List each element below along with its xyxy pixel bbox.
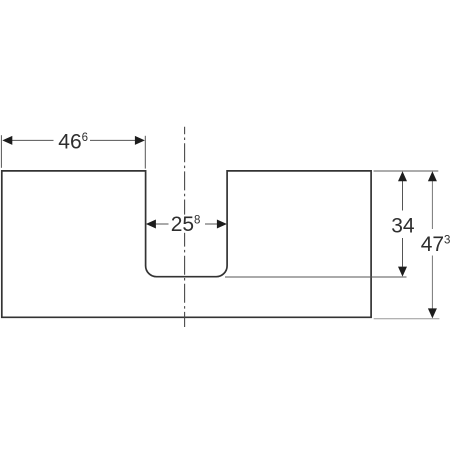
- extension line left edge: [0, 135, 2, 168]
- dimension line 46.6: [12, 139, 54, 141]
- arrow 47.3 bottom: [428, 308, 437, 318]
- svg-text:466: 466: [58, 131, 88, 154]
- extension line bottom right: [374, 318, 440, 320]
- svg-text:34: 34: [391, 215, 415, 238]
- dimension line 25.8: [156, 223, 169, 225]
- panel outline with U-shaped cutout: [2, 171, 371, 317]
- arrow 34 top: [398, 171, 407, 181]
- text mask over centerline: [170, 215, 206, 233]
- dimension line 47.3: [431, 181, 433, 229]
- extension line cutout left edge: [144, 136, 146, 169]
- dimension line 34: [402, 181, 404, 211]
- arrow 25.8 left: [146, 220, 156, 229]
- extension line cutout bottom level: [225, 276, 407, 278]
- arrow 46.6 right: [135, 136, 145, 145]
- centerline (dash-dot): [184, 127, 186, 327]
- arrow 34 bottom: [398, 267, 407, 277]
- arrow 46.6 left: [2, 136, 12, 145]
- svg-text:473: 473: [421, 233, 450, 256]
- extension line top right: [374, 170, 439, 172]
- arrow 47.3 top: [428, 171, 437, 181]
- arrow 25.8 right: [217, 220, 227, 229]
